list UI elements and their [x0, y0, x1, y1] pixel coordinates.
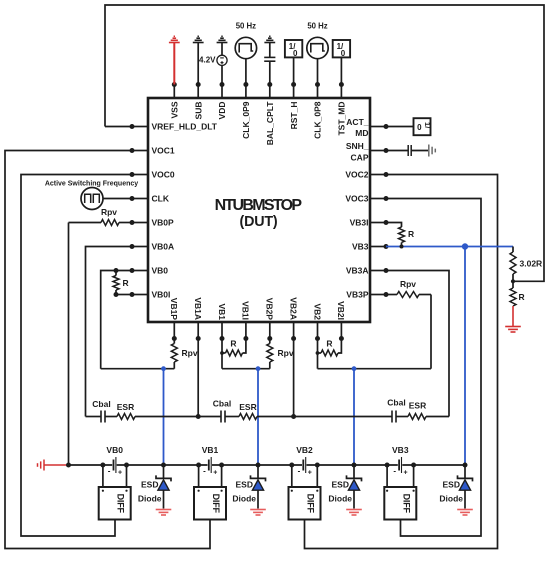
- diff amp DIFF0: [102, 465, 104, 487]
- 1/0 source on ACT_MD: [386, 126, 414, 128]
- ground VSS (red): [173, 43, 175, 85]
- wire VB0: [101, 271, 132, 369]
- resistor 3.02R: [512, 247, 514, 253]
- svg-text:4.2V: 4.2V: [199, 55, 216, 64]
- svg-text:Rpv: Rpv: [182, 348, 198, 358]
- 1/0 source on RST_H: [293, 57, 295, 84]
- svg-text:ESR: ESR: [239, 402, 256, 412]
- svg-text:VB0A: VB0A: [152, 242, 175, 252]
- svg-text:VB3P: VB3P: [346, 290, 369, 300]
- svg-text:+: +: [213, 470, 217, 477]
- svg-text:Cbal: Cbal: [213, 399, 231, 409]
- ESD diode D0: [161, 463, 166, 468]
- resistor R between VB3I and VB3: [386, 223, 402, 228]
- node3 wire (VB2 / blue3 / VB3P): [318, 368, 432, 370]
- resistor Rpv below VB1P: [173, 339, 175, 344]
- battery VB3: [398, 460, 400, 471]
- svg-text:DIFF: DIFF: [211, 494, 221, 514]
- blue wire down to cell3 top node: [464, 247, 466, 466]
- svg-text:VB3I: VB3I: [350, 218, 369, 228]
- ground (red) below ESD diode D0: [156, 510, 172, 516]
- blue wire node1 down to cell0 top node: [163, 369, 165, 465]
- svg-text:3.02R: 3.02R: [520, 259, 543, 269]
- wire VB2A down to Cbal junction: [293, 339, 295, 417]
- svg-text:BAL_CPLT: BAL_CPLT: [265, 101, 275, 146]
- svg-text:VOC1: VOC1: [152, 146, 175, 156]
- red wire + ground below R: [512, 306, 514, 327]
- svg-text:VB2A: VB2A: [288, 297, 298, 320]
- svg-text:VB1: VB1: [202, 445, 219, 455]
- wire VOC2 loop to DIFF3: [305, 175, 498, 549]
- svg-text:(DUT): (DUT): [240, 214, 278, 230]
- resistor R between VB0 and VB0I: [114, 268, 119, 273]
- svg-text:+: +: [118, 470, 122, 477]
- svg-text:Diode: Diode: [138, 494, 162, 504]
- svg-text:CAP: CAP: [351, 153, 369, 163]
- svg-text:Rpv: Rpv: [101, 207, 117, 217]
- svg-text:ESD: ESD: [443, 480, 460, 490]
- resistor R below 3.02R: [512, 281, 514, 288]
- svg-text:Cbal: Cbal: [387, 398, 405, 408]
- svg-text:-: -: [203, 467, 206, 476]
- svg-text:DIFF: DIFF: [116, 494, 126, 514]
- svg-text:-: -: [393, 467, 396, 476]
- resistor Rpv on VB0P: [69, 222, 102, 224]
- diff amp DIFF1: [198, 465, 200, 487]
- svg-text:VB0I: VB0I: [152, 290, 171, 300]
- ground (red) below ESD diode D1: [250, 510, 266, 516]
- svg-text:VSS: VSS: [170, 101, 180, 118]
- svg-text:VREF_HLD_DLT: VREF_HLD_DLT: [152, 122, 218, 132]
- IC pin stubs right: [370, 126, 386, 128]
- capacitor Cbal3 + resistor ESR3 (VB2A-VB3A): [294, 416, 392, 418]
- svg-text:Diode: Diode: [232, 494, 256, 504]
- IC pin stubs bottom: [173, 322, 175, 339]
- svg-text:VB1P: VB1P: [169, 298, 179, 321]
- svg-text:Diode: Diode: [439, 494, 463, 504]
- voltage source 4.2V on VDD: [221, 43, 223, 56]
- wire VB3A down to Cbal3: [386, 271, 449, 417]
- diff amp DIFF2: [291, 465, 293, 487]
- ground SUB: [197, 43, 199, 85]
- resistor Rpv below VB2P: [269, 339, 271, 344]
- capacitor Cbal2 + resistor ESR2 (VB1A-VB2A): [198, 416, 221, 418]
- wire VOC3 loop to DIFF4: [386, 199, 481, 537]
- svg-text:ACT_: ACT_: [346, 117, 368, 127]
- wire VREF_HLD_DLT: [105, 126, 132, 128]
- ground (red) below ESD diode D2: [346, 510, 362, 516]
- node1 wire (VB0 / Rpv1 / blue1): [101, 368, 175, 370]
- svg-text:VB1I: VB1I: [241, 301, 251, 320]
- wire VB3 (blue net): [386, 246, 513, 248]
- diff amp DIFF3: [386, 465, 388, 487]
- clock source 50 Hz on CLK_0P8: [317, 59, 319, 85]
- ESD diode D1: [256, 463, 261, 468]
- svg-text:R: R: [230, 339, 236, 349]
- svg-text:SUB: SUB: [193, 102, 203, 120]
- svg-text:RST_H: RST_H: [289, 102, 299, 130]
- wire VB0P down to battery line: [68, 223, 70, 466]
- svg-text:R: R: [519, 292, 525, 302]
- op-amp U1 DUT block NTUBMSTOP: [148, 98, 370, 322]
- wire VREF_HLD_DLT to 3.02R node, top border: [105, 5, 544, 281]
- svg-text:VB2: VB2: [312, 303, 322, 320]
- wire VOC1 loop to DIFF2: [5, 151, 210, 549]
- clock source 50 Hz on CLK_0P9: [245, 59, 247, 85]
- svg-text:+: +: [404, 470, 408, 477]
- capacitor Cbal1 + resistor ESR1 (VB0A-VB1A): [86, 416, 102, 418]
- svg-text:50 Hz: 50 Hz: [307, 22, 327, 31]
- svg-text:SNH_: SNH_: [346, 141, 369, 151]
- clock source Active Switching Frequency on CLK: [103, 198, 132, 200]
- svg-text:ESD: ESD: [332, 480, 349, 490]
- wire VB0A down to Cbal line: [86, 247, 133, 417]
- svg-text:-: -: [298, 467, 301, 476]
- resistor Rpv on VB3P: [386, 294, 397, 296]
- svg-text:CLK_0P8: CLK_0P8: [313, 101, 323, 139]
- IC pin stubs top: [173, 85, 175, 99]
- svg-text:ESR: ESR: [409, 401, 426, 411]
- svg-text:Active Switching Frequency: Active Switching Frequency: [45, 181, 138, 188]
- svg-text:VB0: VB0: [106, 445, 123, 455]
- capacitor on BAL_CPLT: [269, 43, 271, 58]
- svg-text:VB1A: VB1A: [193, 297, 203, 320]
- svg-text:TST_MD: TST_MD: [337, 102, 347, 136]
- wire VB1 down to node2: [221, 339, 223, 369]
- ESD diode D2: [352, 463, 357, 468]
- svg-text:Cbal: Cbal: [92, 399, 110, 409]
- capacitor on SNH_CAP: [386, 150, 408, 152]
- svg-text:50 Hz: 50 Hz: [236, 22, 256, 31]
- svg-text:0: 0: [341, 49, 346, 58]
- svg-text:CLK: CLK: [152, 194, 170, 204]
- svg-text:VB3: VB3: [352, 242, 369, 252]
- junction VB3 blue: [462, 243, 468, 249]
- svg-text:MD: MD: [355, 128, 368, 138]
- battery VB0: [113, 460, 115, 471]
- svg-text:VB0P: VB0P: [152, 218, 175, 228]
- svg-text:Rpv: Rpv: [278, 348, 294, 358]
- blue wire node3 down to cell2 top node: [353, 369, 355, 465]
- svg-text:NTUBMSTOP: NTUBMSTOP: [215, 197, 303, 214]
- wire VB1A down to Cbal junction: [197, 339, 199, 417]
- svg-text:R: R: [408, 229, 414, 239]
- svg-text:VB3A: VB3A: [346, 266, 369, 276]
- svg-text:R: R: [326, 339, 332, 349]
- svg-text:ESD: ESD: [141, 480, 158, 490]
- svg-text:1/: 1/: [423, 122, 432, 129]
- svg-text:DIFF: DIFF: [306, 494, 316, 514]
- battery stack main wire: [69, 464, 113, 466]
- wire VOC0 loop to DIFF1: [21, 175, 132, 537]
- ground SNH_CAP (sideways): [429, 145, 436, 157]
- IC pin stubs left: [132, 126, 148, 128]
- svg-text:VB2I: VB2I: [336, 301, 346, 320]
- svg-text:VB2: VB2: [296, 445, 313, 455]
- svg-text:VOC3: VOC3: [345, 194, 368, 204]
- blue wire node2 down to cell1 top node: [257, 369, 259, 465]
- svg-text:-: -: [108, 467, 111, 476]
- svg-text:Diode: Diode: [328, 494, 352, 504]
- svg-text:VB1: VB1: [217, 303, 227, 320]
- resistor R between VB1 and VB1I: [220, 351, 224, 355]
- svg-text:VB0: VB0: [152, 266, 169, 276]
- svg-text:Rpv: Rpv: [400, 279, 416, 289]
- resistor R between VB2 and VB2I: [316, 351, 320, 355]
- 1/0 source on TST_MD: [340, 57, 342, 84]
- ground (red) left of battery stack: [38, 460, 45, 471]
- wire VB2 down to node3: [317, 339, 319, 369]
- svg-text:VB3: VB3: [392, 445, 409, 455]
- ESD diode D3: [463, 463, 468, 468]
- svg-text:0: 0: [293, 49, 298, 58]
- svg-text:+: +: [308, 470, 312, 477]
- svg-text:VB2P: VB2P: [265, 298, 275, 321]
- svg-text:ESD: ESD: [236, 480, 253, 490]
- node2 wire: [222, 368, 270, 370]
- svg-text:VOC0: VOC0: [152, 170, 175, 180]
- svg-text:ESR: ESR: [117, 402, 134, 412]
- svg-text:VOC2: VOC2: [345, 170, 368, 180]
- svg-text:DIFF: DIFF: [401, 494, 411, 514]
- ground (red) below ESD diode D3: [457, 510, 473, 516]
- svg-text:VDD: VDD: [217, 102, 227, 120]
- battery VB2: [302, 460, 304, 471]
- svg-text:CLK_0P9: CLK_0P9: [241, 101, 251, 139]
- svg-text:0: 0: [417, 123, 422, 132]
- battery VB1: [208, 460, 210, 471]
- svg-text:R: R: [123, 278, 129, 288]
- wire VB3P down to node3: [430, 295, 432, 369]
